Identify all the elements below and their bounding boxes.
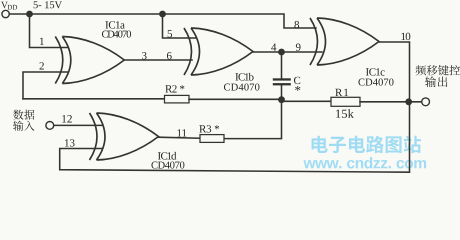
pin number 12 <box>62 115 72 122</box>
pin number 8 <box>294 21 299 28</box>
label CD4070 (IC1c) <box>358 79 393 86</box>
label IC1b <box>235 73 253 81</box>
terminal output <box>422 98 430 106</box>
pin number 4 <box>271 44 276 51</box>
wire pin 2 <box>23 72 68 99</box>
watermark text 电子电路图站 <box>312 136 421 153</box>
terminal VDD <box>2 10 9 17</box>
wire RC node down to R3 <box>224 99 282 138</box>
resistor R1 <box>331 97 360 106</box>
wire pin 5 from VDD <box>163 14 197 38</box>
wire node4 to capacitor <box>281 52 283 78</box>
wire VDD rail to pin 8 <box>9 14 316 28</box>
label R1 <box>335 89 348 96</box>
watermark text www.cndzz.com <box>303 157 426 168</box>
label VDD <box>1 2 17 10</box>
terminal data input <box>46 122 54 130</box>
pin number 3 <box>142 52 147 59</box>
pin number 13 <box>65 139 75 146</box>
junction RC node <box>278 96 285 103</box>
label R3 * <box>199 125 219 132</box>
wire pin 1 from VDD <box>30 14 69 48</box>
junction VDD / pin5 <box>159 11 166 18</box>
label IC1a <box>105 21 124 28</box>
pin number 9 <box>296 44 301 51</box>
wire R2 to RC node <box>189 98 282 100</box>
junction VDD / pin1 <box>26 11 33 18</box>
xor gate IC1a <box>55 37 124 84</box>
label 频移键控 <box>416 65 460 75</box>
label CD4070 (IC1d) <box>151 162 184 169</box>
junction node 4/9/C <box>278 49 285 56</box>
pin number 2 <box>39 62 43 69</box>
wire output 4 to pin 9 <box>253 51 322 53</box>
wire output 3 to pin 6 <box>124 59 192 61</box>
wire RC node to R1 <box>282 100 332 102</box>
pin number 1 <box>40 38 44 45</box>
resistor R2 <box>165 95 190 103</box>
label 5-15V supply <box>34 1 62 8</box>
label CD4070 (IC1a) <box>102 31 131 38</box>
wire R2 net from pin2 to RC node <box>23 98 165 100</box>
wire output 10 to output node <box>380 42 410 101</box>
wire R1 to output terminal <box>360 101 422 103</box>
wire output 11 to R3 <box>158 137 200 138</box>
label R2 * <box>165 85 184 92</box>
label IC1d <box>158 152 176 160</box>
junction output node <box>405 98 412 105</box>
label IC1c <box>366 68 385 75</box>
label C asterisk <box>295 86 300 91</box>
xor gate IC1c <box>310 18 379 65</box>
resistor R3 <box>200 135 224 143</box>
wire feedback from output node to pin 13 <box>60 102 410 172</box>
xor gate IC1d <box>90 113 159 160</box>
label 数据输入 <box>13 110 34 131</box>
label C <box>294 77 300 84</box>
xor gate IC1b <box>184 28 253 75</box>
label CD4070 (IC1b) <box>224 84 260 91</box>
pin number 6 <box>167 52 172 59</box>
label 输出 <box>425 76 447 87</box>
wire pin 12 <box>54 124 102 126</box>
label 15k <box>336 109 354 118</box>
pin number 5 <box>168 30 172 37</box>
pin number 10 <box>401 33 410 40</box>
pin number 11 <box>177 129 186 136</box>
capacitor C plates <box>273 78 291 85</box>
wire capacitor to RC node <box>281 85 283 99</box>
